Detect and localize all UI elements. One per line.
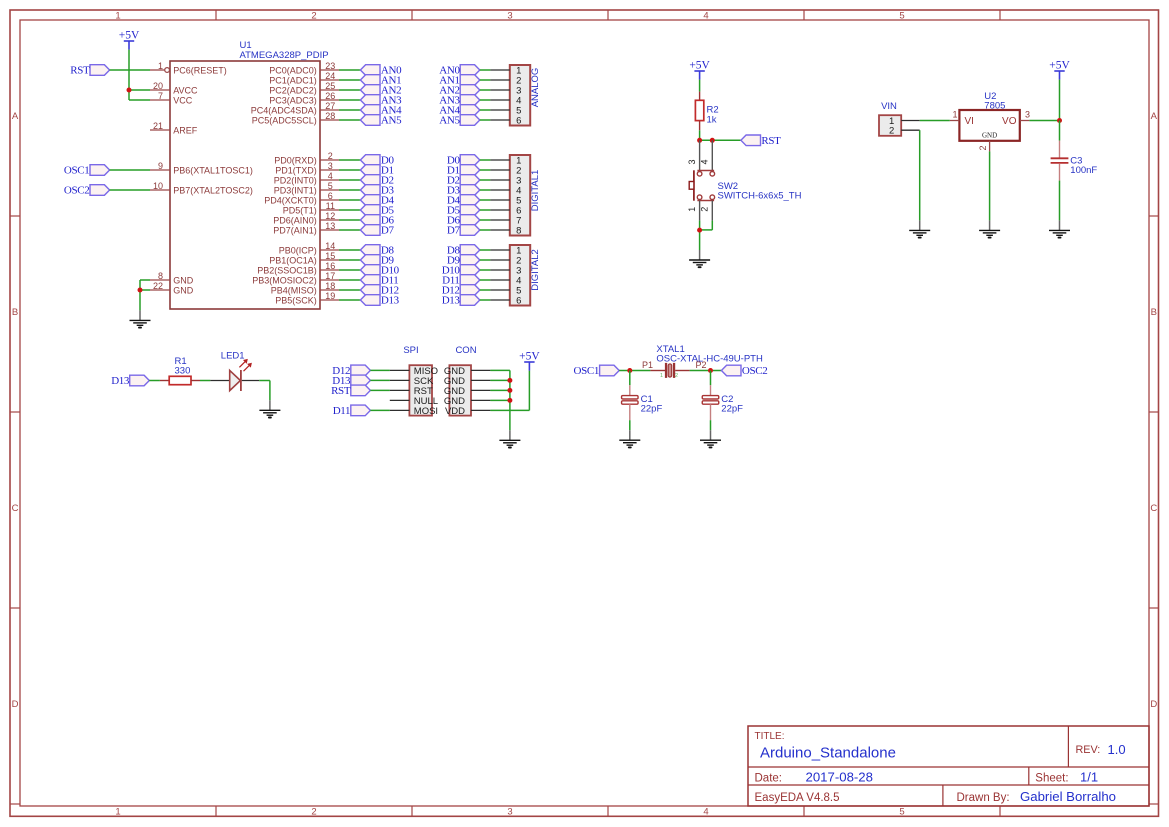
U1 pin 28 PC5(ADC5SCL) <box>252 111 339 125</box>
U1 pin 9 PB6(XTAL1TOSC1) <box>150 161 253 175</box>
connector SPI body <box>403 345 432 415</box>
net flag D13 at R1 <box>111 375 149 387</box>
svg-text:1: 1 <box>687 207 697 212</box>
DIGITAL1 pin 1 <box>490 155 521 166</box>
label DIGITAL1 <box>530 170 541 212</box>
svg-text:4: 4 <box>703 806 708 817</box>
wire R2 to RST node <box>700 130 741 140</box>
svg-text:4: 4 <box>700 159 710 164</box>
U1 pin 5 PD3(INT1) <box>274 181 339 195</box>
svg-text:B: B <box>12 307 18 318</box>
VIN pin 2 <box>889 126 920 137</box>
U1 pin 20 AVCC <box>150 81 198 95</box>
U1 pin 13 PD7(AIN1) <box>273 221 339 235</box>
net flag AN4 <box>360 105 402 117</box>
U1 pin 17 PB3(MOSIOC2) <box>252 271 339 285</box>
svg-text:DIGITAL2: DIGITAL2 <box>530 249 541 291</box>
svg-text:27: 27 <box>325 101 335 111</box>
net flag D13 at DIGITAL2 <box>442 295 480 307</box>
net flag D7 at DIGITAL1 <box>447 225 480 237</box>
svg-text:6: 6 <box>516 115 521 126</box>
junction node OSC1/C1 <box>627 368 632 373</box>
svg-text:PB2(SSOC1B): PB2(SSOC1B) <box>257 265 317 275</box>
net flag OSC1 at XTAL1 <box>574 365 620 377</box>
svg-text:5: 5 <box>328 181 333 191</box>
net flag D4 at DIGITAL1 <box>447 195 480 207</box>
svg-text:8: 8 <box>516 225 521 236</box>
ground (U1) <box>130 310 151 327</box>
svg-text:12: 12 <box>325 211 335 221</box>
DIGITAL2 pin 3 <box>490 265 521 276</box>
svg-text:ANALOG: ANALOG <box>530 68 541 108</box>
svg-text:PC1(ADC1): PC1(ADC1) <box>269 75 317 85</box>
svg-text:TITLE:: TITLE: <box>755 731 785 742</box>
wire D13 to DIGITAL2 <box>480 299 491 301</box>
svg-text:VIN: VIN <box>881 101 897 112</box>
CON pin GND <box>444 396 491 407</box>
svg-text:2: 2 <box>311 10 316 21</box>
svg-text:Date:: Date: <box>755 772 783 784</box>
wire U1 to net flag D1 <box>339 169 360 171</box>
svg-text:D7: D7 <box>447 225 461 237</box>
wire RST to U1 pin1 <box>110 69 150 71</box>
svg-text:6: 6 <box>328 191 333 201</box>
label ANALOG <box>530 68 541 108</box>
DIGITAL2 pin 2 <box>490 255 521 266</box>
svg-text:+5V: +5V <box>519 351 540 363</box>
svg-text:GND: GND <box>982 132 997 140</box>
ground (U2) <box>979 220 1000 237</box>
power flag +5V (CON) <box>519 351 540 371</box>
U1 pin 7 VCC <box>150 91 193 105</box>
svg-text:GND: GND <box>173 285 194 295</box>
connector DIGITAL1 body <box>510 155 530 236</box>
svg-text:VI: VI <box>965 116 974 127</box>
wire D0 to DIGITAL1 <box>480 159 491 161</box>
svg-text:2: 2 <box>328 151 333 161</box>
net flag D11 at SPI <box>333 405 371 417</box>
svg-text:PB1(OC1A): PB1(OC1A) <box>269 255 317 265</box>
CON pin GND <box>444 366 491 377</box>
net flag AN0 at ANALOG <box>439 65 480 77</box>
wire D11 to SPI <box>370 409 389 411</box>
wire AN4 to ANALOG <box>480 109 491 111</box>
net flag D3 <box>360 185 394 197</box>
U1 pin 21 AREF <box>150 121 198 135</box>
net flag D12 at DIGITAL2 <box>442 285 480 297</box>
svg-text:VDD: VDD <box>445 406 465 417</box>
svg-text:PD3(INT1): PD3(INT1) <box>274 185 317 195</box>
svg-text:19: 19 <box>325 291 335 301</box>
svg-text:+5V: +5V <box>119 30 140 42</box>
svg-text:1: 1 <box>115 10 120 21</box>
connector CON body <box>449 345 476 415</box>
ANALOG pin 5 <box>490 105 521 116</box>
svg-text:D13: D13 <box>442 295 461 307</box>
wire U1 to net flag D13 <box>339 299 360 301</box>
U1 pin 23 PC0(ADC0) <box>269 61 339 75</box>
wire U1 to net flag D2 <box>339 179 360 181</box>
net flag AN5 at ANALOG <box>439 115 480 127</box>
net flag RST at U1 <box>70 65 109 77</box>
svg-text:REV:: REV: <box>1076 744 1101 756</box>
wire D4 to DIGITAL1 <box>480 199 491 201</box>
svg-text:A: A <box>12 111 19 122</box>
svg-text:2: 2 <box>700 207 710 212</box>
svg-text:20: 20 <box>153 81 163 91</box>
wire OSC2 to U1 pin10 <box>110 189 150 191</box>
wire D10 to DIGITAL2 <box>480 269 491 271</box>
DIGITAL1 pin 5 <box>490 195 521 206</box>
net flag D5 <box>360 205 394 217</box>
wire U1 to net flag D12 <box>339 289 360 291</box>
svg-text:PB4(MISO): PB4(MISO) <box>271 285 317 295</box>
net flag D9 <box>360 255 394 267</box>
U1 pin 8 GND <box>150 271 194 285</box>
svg-text:13: 13 <box>325 221 335 231</box>
svg-text:3: 3 <box>1025 109 1030 119</box>
svg-text:9: 9 <box>158 161 163 171</box>
svg-text:D13: D13 <box>381 295 400 307</box>
U1 pin 14 PB0(ICP) <box>279 241 339 255</box>
svg-text:11: 11 <box>326 201 335 211</box>
connector ANALOG body <box>510 65 530 126</box>
svg-text:1k: 1k <box>707 114 717 125</box>
wire +5V down to node <box>1059 80 1061 121</box>
svg-text:PD6(AIN0): PD6(AIN0) <box>273 215 317 225</box>
svg-text:PC2(ADC2): PC2(ADC2) <box>269 85 317 95</box>
connector VIN body <box>879 115 901 136</box>
net flag AN0 <box>360 65 402 77</box>
svg-text:PC0(ADC0): PC0(ADC0) <box>269 65 317 75</box>
wire U1 to net flag AN5 <box>339 119 360 121</box>
wire AN3 to ANALOG <box>480 99 491 101</box>
svg-text:15: 15 <box>325 251 335 261</box>
svg-text:100nF: 100nF <box>1070 165 1097 176</box>
wire U1 to net flag D11 <box>339 279 360 281</box>
net flag D6 at DIGITAL1 <box>447 215 480 227</box>
net flag D0 <box>360 155 394 167</box>
svg-text:ATMEGA328P_PDIP: ATMEGA328P_PDIP <box>240 50 329 61</box>
wire D3 to DIGITAL1 <box>480 189 491 191</box>
capacitor C2 22pF <box>702 385 743 420</box>
net flag D13 at SPI <box>332 375 370 387</box>
net flag D6 <box>360 215 394 227</box>
net flag OSC2 at XTAL1 <box>721 365 767 377</box>
svg-text:PC3(ADC3): PC3(ADC3) <box>269 95 317 105</box>
wire U1 to net flag D10 <box>339 269 360 271</box>
net flag RST at SW2 <box>741 135 781 147</box>
net flag D7 <box>360 225 394 237</box>
svg-text:PD4(XCKT0): PD4(XCKT0) <box>264 195 317 205</box>
svg-text:PC5(ADC5SCL): PC5(ADC5SCL) <box>252 115 317 125</box>
ground (C1) <box>619 430 640 447</box>
switch SW2 SWITCH-6x6x5_TH <box>687 140 802 220</box>
svg-text:VO: VO <box>1002 116 1017 127</box>
svg-text:2: 2 <box>889 126 894 137</box>
wire U1 to net flag AN3 <box>339 99 360 101</box>
svg-text:10: 10 <box>153 181 163 191</box>
DIGITAL2 pin 1 <box>490 245 521 256</box>
net flag OSC1 at U1 <box>64 165 110 177</box>
wire D5 to DIGITAL1 <box>480 209 491 211</box>
svg-text:7: 7 <box>158 91 163 101</box>
svg-text:+5V: +5V <box>689 60 710 72</box>
wire U1 to net flag D6 <box>339 219 360 221</box>
wire D11 to DIGITAL2 <box>480 279 491 281</box>
svg-text:PB7(XTAL2TOSC2): PB7(XTAL2TOSC2) <box>173 185 253 195</box>
svg-text:EasyEDA V4.8.5: EasyEDA V4.8.5 <box>755 792 840 804</box>
wire D12 to DIGITAL2 <box>480 289 491 291</box>
wire AN2 to ANALOG <box>480 89 491 91</box>
junction at GND net <box>138 288 143 293</box>
svg-text:1: 1 <box>953 109 958 119</box>
DIGITAL1 pin 3 <box>490 175 521 186</box>
U1 pin 24 PC1(ADC1) <box>269 71 339 85</box>
svg-text:3: 3 <box>507 10 512 21</box>
svg-text:PC4(ADC4SDA): PC4(ADC4SDA) <box>251 105 317 115</box>
svg-text:C: C <box>12 503 19 514</box>
wire VIN pin2 to ground <box>919 130 921 220</box>
ANALOG pin 3 <box>490 85 521 96</box>
net flag D1 at DIGITAL1 <box>447 165 480 177</box>
junction +5V/C3 node <box>1057 118 1062 123</box>
svg-text:4: 4 <box>328 171 333 181</box>
U1 pin 6 PD4(XCKT0) <box>264 191 339 205</box>
svg-text:Arduino_Standalone: Arduino_Standalone <box>760 744 896 761</box>
wire U1 to net flag AN2 <box>339 89 360 91</box>
DIGITAL1 pin 8 <box>490 225 521 236</box>
U1 pin 4 PD2(INT0) <box>274 171 339 185</box>
wire C3 to ground <box>1059 181 1061 221</box>
svg-text:D: D <box>12 699 19 710</box>
junction node OSC2/C2 <box>708 368 713 373</box>
wire U1 to net flag D4 <box>339 199 360 201</box>
net flag AN4 at ANALOG <box>439 105 480 117</box>
junction CON GND 2 <box>507 378 512 383</box>
wire R1 to LED1 <box>200 380 210 382</box>
ground (LED1) <box>259 400 280 417</box>
U1 pin 3 PD1(TXD) <box>275 161 339 175</box>
wire D9 to DIGITAL2 <box>480 259 491 261</box>
DIGITAL1 pin 7 <box>490 215 521 226</box>
crystal XTAL1 OSC-XTAL-HC-49U-PTH <box>642 344 763 379</box>
U1 pin 27 PC4(ADC4SDA) <box>251 101 339 115</box>
svg-text:OSC2: OSC2 <box>742 365 768 377</box>
wire D6 to DIGITAL1 <box>480 219 491 221</box>
svg-text:LED1: LED1 <box>221 350 245 361</box>
ground (C2) <box>700 430 721 447</box>
VIN pin 1 <box>889 116 920 127</box>
wire AN5 to ANALOG <box>480 119 491 121</box>
net flag D5 at DIGITAL1 <box>447 205 480 217</box>
U1 pin 16 PB2(SSOC1B) <box>257 261 339 275</box>
svg-text:Sheet:: Sheet: <box>1035 772 1068 784</box>
wire XTAL1 to OSC2 <box>690 370 722 372</box>
net flag OSC2 at U1 <box>64 185 110 197</box>
wire U1 to net flag D3 <box>339 189 360 191</box>
svg-text:VCC: VCC <box>173 95 193 105</box>
svg-text:D7: D7 <box>381 225 395 237</box>
svg-text:RST: RST <box>70 65 90 77</box>
net flag D13 <box>360 295 399 307</box>
net flag D9 at DIGITAL2 <box>447 255 480 267</box>
U1 pin 18 PB4(MISO) <box>271 281 339 295</box>
net flag AN5 <box>360 115 402 127</box>
svg-text:16: 16 <box>325 261 335 271</box>
wire C2 top <box>710 371 712 386</box>
net flag D8 at DIGITAL2 <box>447 245 480 257</box>
capacitor C3 100nF <box>1051 141 1098 181</box>
svg-text:22: 22 <box>153 281 163 291</box>
net flag AN2 <box>360 85 401 97</box>
svg-text:2: 2 <box>311 806 316 817</box>
SPI pin MOSI <box>390 406 438 417</box>
svg-text:Drawn By:: Drawn By: <box>957 792 1010 804</box>
ground (C3) <box>1049 220 1070 237</box>
wire U1 to net flag AN0 <box>339 69 360 71</box>
wire U1 to net flag D7 <box>339 229 360 231</box>
DIGITAL1 pin 6 <box>490 205 521 216</box>
svg-text:MOSI: MOSI <box>414 406 438 417</box>
net flag RST at SPI <box>331 385 370 397</box>
CON pin VDD <box>445 406 490 417</box>
wire LED1 to ground <box>259 381 270 401</box>
svg-text:D13: D13 <box>111 375 130 387</box>
svg-text:1.0: 1.0 <box>1108 742 1126 757</box>
connector DIGITAL2 body <box>510 245 530 306</box>
net flag D1 <box>360 165 393 177</box>
svg-text:PD2(INT0): PD2(INT0) <box>274 175 317 185</box>
svg-text:2: 2 <box>675 373 678 379</box>
wire U1 to net flag AN4 <box>339 109 360 111</box>
U1 pin 10 PB7(XTAL2TOSC2) <box>150 181 253 195</box>
title block <box>748 726 1149 806</box>
U1 pin 26 PC3(ADC3) <box>269 91 339 105</box>
svg-text:PB0(ICP): PB0(ICP) <box>279 245 317 255</box>
net flag D10 <box>360 265 399 277</box>
svg-text:2017-08-28: 2017-08-28 <box>806 770 873 785</box>
wire D7 to DIGITAL1 <box>480 229 491 231</box>
power flag +5V (U2 output) <box>1049 60 1070 80</box>
svg-text:D: D <box>1150 699 1157 710</box>
SPI pin SCK <box>390 376 434 387</box>
svg-text:P1: P1 <box>642 360 653 370</box>
DIGITAL2 pin 6 <box>490 295 521 306</box>
junction CON GND 4 <box>507 398 512 403</box>
label DIGITAL2 <box>530 249 541 291</box>
svg-text:PC6(RESET): PC6(RESET) <box>173 65 227 75</box>
svg-text:SWITCH-6x6x5_TH: SWITCH-6x6x5_TH <box>718 191 802 202</box>
wire AN1 to ANALOG <box>480 79 491 81</box>
ground (VIN) <box>909 220 930 237</box>
DIGITAL1 pin 2 <box>490 165 521 176</box>
wire C1 top <box>629 371 631 386</box>
svg-text:1: 1 <box>115 806 120 817</box>
LED LED1 <box>210 350 259 391</box>
svg-text:18: 18 <box>325 281 335 291</box>
power flag +5V (R2) <box>689 60 710 80</box>
CON pin GND <box>444 376 491 387</box>
svg-text:OSC1: OSC1 <box>64 165 90 177</box>
junction CON GND 3 <box>507 388 512 393</box>
svg-text:PD1(TXD): PD1(TXD) <box>275 165 317 175</box>
U1 pin 12 PD6(AIN0) <box>273 211 339 225</box>
svg-text:PB6(XTAL1TOSC1): PB6(XTAL1TOSC1) <box>173 165 253 175</box>
ground (CON) <box>499 430 520 447</box>
wire U1 to net flag AN1 <box>339 79 360 81</box>
svg-text:23: 23 <box>325 61 335 71</box>
SPI pin NULL <box>390 396 438 407</box>
svg-text:22pF: 22pF <box>721 404 743 415</box>
wire D13 to R1 <box>149 380 160 382</box>
net flag D2 <box>360 175 393 187</box>
wire C2 to ground <box>710 420 712 430</box>
wire OSC1 to U1 pin9 <box>110 169 150 171</box>
svg-text:PD7(AIN1): PD7(AIN1) <box>273 225 317 235</box>
svg-text:DIGITAL1: DIGITAL1 <box>530 170 541 212</box>
U1 pin 25 PC2(ADC2) <box>269 81 339 95</box>
net flag AN1 <box>360 75 401 87</box>
svg-text:17: 17 <box>325 271 335 281</box>
svg-text:PB3(MOSIOC2): PB3(MOSIOC2) <box>252 275 317 285</box>
svg-text:6: 6 <box>516 295 521 306</box>
svg-text:2: 2 <box>978 145 988 150</box>
wire D12 to SPI <box>370 369 389 371</box>
wire CON GND pins to ground rail <box>490 370 510 430</box>
SPI pin RST <box>390 386 433 397</box>
net flag D11 at DIGITAL2 <box>442 275 480 287</box>
net flag D8 <box>360 245 394 257</box>
net flag D12 <box>360 285 398 297</box>
U1 pin 11 PD5(T1) <box>283 201 339 215</box>
svg-text:21: 21 <box>153 121 163 131</box>
label VIN <box>881 101 897 112</box>
svg-text:3: 3 <box>687 159 697 164</box>
wire OSC1 to XTAL1 <box>619 370 650 372</box>
SPI pin MISO <box>390 366 438 377</box>
wire D1 to DIGITAL1 <box>480 169 491 171</box>
junction RST node A <box>697 138 702 143</box>
U1 pin 19 PB5(SCK) <box>275 291 339 305</box>
svg-text:1: 1 <box>660 373 663 379</box>
IC U1 ATMEGA328P_PDIP body <box>170 40 329 309</box>
resistor R1 330 <box>160 356 200 385</box>
svg-text:AN5: AN5 <box>439 115 460 127</box>
svg-text:AREF: AREF <box>173 125 198 135</box>
svg-text:24: 24 <box>325 71 335 81</box>
svg-text:B: B <box>1151 307 1157 318</box>
svg-text:25: 25 <box>325 81 335 91</box>
net flag D3 at DIGITAL1 <box>447 185 480 197</box>
CON pin GND <box>444 386 491 397</box>
U1 pin 1 PC6(RESET) <box>150 61 227 75</box>
net flag AN3 <box>360 95 402 107</box>
svg-text:8: 8 <box>158 271 163 281</box>
svg-text:OSC2: OSC2 <box>64 185 90 197</box>
net flag D4 <box>360 195 394 207</box>
wire AN0 to ANALOG <box>480 69 491 71</box>
svg-text:C: C <box>1150 503 1157 514</box>
net flag D12 at SPI <box>332 365 370 377</box>
wire D2 to DIGITAL1 <box>480 179 491 181</box>
wire +5V to R2 <box>699 80 701 92</box>
wire U2 VO to +5V node <box>1029 120 1059 122</box>
svg-text:GND: GND <box>173 275 194 285</box>
svg-text:PB5(SCK): PB5(SCK) <box>275 295 317 305</box>
wire VIN pin1 to U2 <box>920 120 950 122</box>
net flag AN2 at ANALOG <box>439 85 480 97</box>
